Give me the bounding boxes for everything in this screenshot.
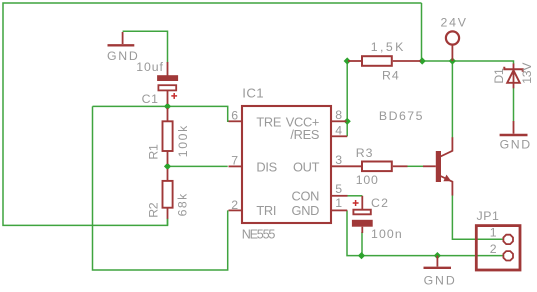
svg-text:R1: R1 <box>147 144 161 160</box>
svg-text:CON: CON <box>292 188 320 203</box>
svg-text:C2: C2 <box>371 196 389 210</box>
svg-text:GND: GND <box>500 138 532 152</box>
svg-text:6: 6 <box>231 109 238 123</box>
svg-text:24V: 24V <box>441 15 468 29</box>
svg-text:1: 1 <box>335 196 342 210</box>
svg-text:8: 8 <box>335 108 342 122</box>
svg-text:D1: D1 <box>492 68 506 84</box>
svg-text:BD675: BD675 <box>379 109 424 123</box>
svg-text:OUT: OUT <box>293 159 320 174</box>
svg-text:4: 4 <box>335 124 342 138</box>
svg-text:IC1: IC1 <box>242 86 264 101</box>
svg-text:R2: R2 <box>146 202 160 218</box>
svg-text:13V: 13V <box>520 62 534 84</box>
svg-text:1,5K: 1,5K <box>371 40 406 54</box>
svg-text:/RES: /RES <box>290 127 319 142</box>
svg-text:TRE: TRE <box>256 114 281 129</box>
svg-text:5: 5 <box>335 182 342 196</box>
svg-text:100k: 100k <box>176 124 190 157</box>
svg-text:1: 1 <box>490 225 497 239</box>
svg-text:TRI: TRI <box>256 203 276 218</box>
svg-text:68k: 68k <box>176 192 190 216</box>
svg-text:100: 100 <box>356 173 379 187</box>
svg-text:7: 7 <box>231 153 238 167</box>
svg-text:3: 3 <box>335 153 342 167</box>
svg-text:GND: GND <box>107 49 139 63</box>
svg-text:2: 2 <box>231 198 238 212</box>
svg-text:NE555: NE555 <box>242 227 276 241</box>
svg-text:100n: 100n <box>371 227 403 241</box>
svg-text:GND: GND <box>424 274 457 288</box>
svg-text:2: 2 <box>490 242 497 256</box>
svg-text:JP1: JP1 <box>477 209 500 223</box>
svg-text:R4: R4 <box>382 69 400 83</box>
svg-text:R3: R3 <box>356 146 374 160</box>
svg-text:C1: C1 <box>142 92 159 106</box>
svg-text:10uf: 10uf <box>136 60 164 74</box>
svg-text:GND: GND <box>292 203 320 218</box>
svg-text:DIS: DIS <box>256 159 276 174</box>
